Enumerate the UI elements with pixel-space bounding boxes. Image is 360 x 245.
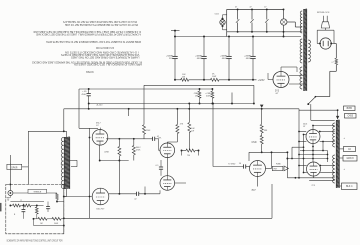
svg-text:NOTES: NOTES (86, 70, 94, 74)
svg-text:LAMPS ALTERNATE A RD-GRNS AND: LAMPS ALTERNATE A RD-GRNS AND SET ON THE… (71, 55, 140, 59)
svg-text:TO GRID: TO GRID (228, 164, 236, 166)
svg-text:A CAPACITOR TUNED AT RECTIFIER: A CAPACITOR TUNED AT RECTIFIER PUT MARKE… (36, 33, 141, 37)
svg-text:450V: 450V (222, 58, 228, 60)
svg-text:APPLYING LID IN RADIO LBL I SE: APPLYING LID IN RADIO LBL I SET CHECKED … (74, 63, 142, 67)
svg-text:A-200: A-200 (97, 104, 104, 107)
svg-text:+325V: +325V (258, 80, 265, 82)
svg-text:47: 47 (235, 7, 237, 9)
svg-text:450V: 450V (81, 94, 87, 96)
svg-text:WIRE RESIST IS FILAMENT TAP II: WIRE RESIST IS FILAMENT TAP II ANY GREEN… (46, 40, 141, 44)
svg-text:450V: 450V (197, 58, 203, 60)
svg-text:GRN 8: GRN 8 (346, 158, 354, 160)
svg-text:SPKR: SPKR (11, 167, 18, 169)
svg-text:25V: 25V (169, 58, 173, 60)
svg-text:10W: 10W (212, 76, 216, 78)
svg-text:INTERLOCK: INTERLOCK (317, 12, 330, 14)
svg-text:470K: 470K (104, 152, 109, 154)
svg-text:6SL7GT: 6SL7GT (96, 209, 105, 211)
svg-text:400V: 400V (206, 96, 211, 98)
svg-text:450V: 450V (246, 58, 252, 60)
svg-text:750: 750 (187, 155, 190, 157)
svg-text:PILOT OF LIGHT LINE TO RECESSE: PILOT OF LIGHT LINE TO RECESSED ITS A MA… (65, 23, 138, 27)
svg-text:B455: B455 (347, 108, 353, 110)
svg-text:.02: .02 (157, 136, 160, 138)
svg-text:R-S CIRCUIT FOR: R-S CIRCUIT FOR (96, 46, 114, 50)
svg-text:47: 47 (250, 7, 252, 9)
svg-text:7N7: 7N7 (251, 190, 256, 192)
svg-text:2W: 2W (182, 76, 185, 78)
svg-text:.02: .02 (134, 198, 137, 200)
svg-text:TREBLE: TREBLE (33, 191, 42, 193)
svg-text:1W: 1W (195, 96, 198, 98)
svg-text:1W: 1W (191, 131, 194, 133)
svg-text:CND: CND (252, 142, 257, 144)
svg-text:BLK 4: BLK 4 (346, 186, 353, 188)
svg-text:47: 47 (264, 7, 266, 9)
svg-text:5Y3: 5Y3 (275, 91, 280, 93)
svg-text:C455: C455 (348, 116, 354, 118)
svg-text:SCHEMATIC OF AMPLIFIER AND TON: SCHEMATIC OF AMPLIFIER AND TONE CONTROL … (7, 239, 63, 242)
